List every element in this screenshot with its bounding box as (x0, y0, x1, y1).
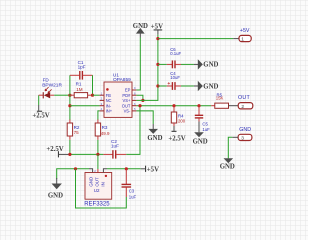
svg-text:GND: GND (203, 83, 218, 90)
pin 7 VS+ (132, 99, 136, 101)
svg-text:+5V: +5V (240, 28, 250, 34)
ground GND (below C5) (193, 132, 208, 145)
wire: node A down through node C to R2 (69, 95, 71, 120)
svg-text:GND: GND (89, 177, 94, 187)
resistor R2 75 (67, 120, 80, 140)
wire: photodiode cathode to node A (54, 94, 70, 96)
svg-text:FD: FD (43, 77, 50, 82)
pin 4 IN+ (100, 110, 104, 112)
port OUT (pin 2) (238, 95, 253, 110)
capacitor C2 1uF (103, 139, 126, 159)
ground GND (right-arrow at C6) (194, 59, 219, 69)
port GND (pin 3) (238, 127, 252, 141)
svg-text:GND: GND (147, 135, 162, 142)
svg-text:IN+: IN+ (106, 109, 113, 114)
svg-text:15K: 15K (216, 95, 224, 100)
wire: node C to U1 IN- pin (70, 105, 100, 107)
svg-text:+2.5V: +2.5V (168, 135, 185, 142)
svg-text:U1: U1 (113, 73, 119, 78)
capacitor C1 1pF (70, 60, 93, 80)
wire: U1 VS+ to +5V column (136, 35, 158, 101)
svg-text:200: 200 (178, 118, 186, 123)
wire: top GND down to U1 EP (136, 38, 140, 91)
wire: +5V column to +5V port (158, 38, 233, 40)
resistor R1 1M (70, 82, 93, 98)
capacitor C4 10uF (polarized) (158, 71, 194, 90)
photodiode FD BPW21R (39, 77, 63, 98)
node B junction (R1 / C1 / FB) (91, 94, 94, 97)
wire: +5V segment to U2 IN pin (103, 169, 107, 173)
U2 GND pin hook (89, 169, 93, 173)
pin 6 OUT (132, 105, 136, 107)
wire: C1 right down to node B (92, 75, 94, 95)
svg-text:VS+: VS+ (123, 98, 131, 103)
svg-text:GND: GND (239, 127, 251, 133)
wire: GND port to ground flag (232, 136, 238, 138)
svg-text:1pF: 1pF (78, 64, 86, 69)
junction rail/R3/U2 OUT (96, 153, 99, 156)
svg-text:+2.5V: +2.5V (32, 113, 49, 120)
wire: node A up to C1 left (69, 75, 71, 95)
wire: +2.5V rail (70, 153, 104, 155)
pin 5 VS- (132, 110, 136, 112)
ground GND (top, arrow up) (133, 23, 148, 38)
wire: C2 right up to OUT net (126, 106, 140, 155)
ground GND (below GND port) (220, 158, 235, 170)
wire: U1 OUT net to R5 (136, 105, 211, 107)
power flag +5V (top) (151, 24, 163, 35)
junction OUT/R4 (172, 104, 175, 107)
ground GND (below VS-) (147, 129, 162, 142)
svg-text:GND: GND (220, 163, 235, 170)
capacitor C6 0.1uF (158, 47, 194, 68)
junction rail/R2 (68, 153, 71, 156)
power flag +5V (right of U2) (141, 166, 159, 174)
junction PD#/VS+ (141, 99, 144, 102)
resistor R4 200 (171, 106, 185, 131)
resistor R5 15K (211, 92, 238, 108)
junction OUT/C2 branch (138, 104, 141, 107)
junction +5V/port wire (156, 37, 159, 40)
svg-text:49.9: 49.9 (101, 131, 110, 136)
capacitor C5 1uF (195, 106, 210, 133)
junction OUT/C5 (197, 104, 200, 107)
wire: U1 IN+ pin to R3 top (98, 111, 100, 120)
junction +5V/C4 (156, 84, 159, 87)
svg-text:1M: 1M (76, 87, 83, 92)
power flag +2.5V (below photodiode) (32, 111, 49, 120)
wire: ground bracket around U2 to C3 bottom (76, 169, 127, 208)
svg-text:1uF: 1uF (129, 194, 137, 199)
pin 9 EP (132, 89, 136, 91)
wire: U1 VS- to ground (136, 111, 153, 124)
svg-text:10uF: 10uF (170, 75, 180, 80)
wire: GND net to U2 (left segment) (57, 169, 89, 179)
port +5V (pin 1) (239, 28, 251, 43)
svg-text:OUT: OUT (238, 95, 251, 101)
svg-text:C3: C3 (129, 188, 135, 193)
power flag +2.5V (below R4) (168, 131, 185, 143)
capacitor C3 1uF (122, 169, 137, 200)
junction +5V/C6 (156, 63, 159, 66)
junction GND/bracket (74, 167, 77, 170)
node C junction (IN- branch) (68, 104, 71, 107)
power flag +2.5V (rail, left) (46, 146, 70, 158)
pin 8 PD# (132, 94, 136, 96)
svg-text:GND: GND (48, 192, 63, 199)
pin 3 IN- (100, 105, 104, 107)
svg-text:0.1uF: 0.1uF (170, 51, 181, 56)
svg-text:IN: IN (101, 182, 106, 186)
pin 1 FB (100, 94, 104, 96)
wire: R3 bottom to +2.5V rail (97, 140, 99, 155)
node A junction (diode / R1 / C1 / R2 / IN-) (68, 94, 71, 97)
svg-text:+5V: +5V (147, 166, 159, 173)
op-amp U1 OPA859 (100, 73, 137, 118)
svg-text:NC: NC (106, 98, 112, 103)
svg-text:OPA859: OPA859 (113, 77, 131, 83)
wire: photodiode anode down to +2.5V flag (38, 95, 40, 105)
svg-text:R3: R3 (102, 125, 108, 130)
svg-text:REF3325: REF3325 (84, 201, 110, 207)
wire: U1 PD# hook to VS+ net (136, 95, 143, 100)
svg-text:U2: U2 (94, 188, 100, 193)
wire: node B to U1 FB pin (93, 94, 100, 96)
svg-text:1uF: 1uF (111, 144, 119, 149)
resistor R3 49.9 (95, 120, 110, 140)
voltage reference U2 REF3325 (84, 169, 112, 207)
svg-text:GND: GND (203, 62, 218, 69)
pin 2 NC (100, 99, 104, 101)
junction IN net / C3 (125, 167, 128, 170)
wire: R2 bottom to +2.5V rail (69, 140, 71, 155)
svg-text:VS-: VS- (124, 109, 131, 114)
svg-text:75: 75 (74, 130, 80, 135)
wire: U2 OUT pin up to +2.5V rail (97, 154, 99, 169)
svg-text:GND: GND (193, 139, 208, 146)
svg-text:OUT: OUT (95, 177, 100, 187)
svg-text:BPW21R: BPW21R (42, 83, 62, 89)
ground GND (right-arrow at C4) (194, 81, 219, 91)
svg-text:3: 3 (241, 136, 244, 142)
ground GND (left of U2) (48, 178, 63, 199)
svg-text:+2.5V: +2.5V (46, 146, 63, 153)
svg-text:2: 2 (241, 104, 244, 110)
svg-text:1uF: 1uF (202, 127, 210, 132)
svg-text:1: 1 (241, 37, 244, 43)
